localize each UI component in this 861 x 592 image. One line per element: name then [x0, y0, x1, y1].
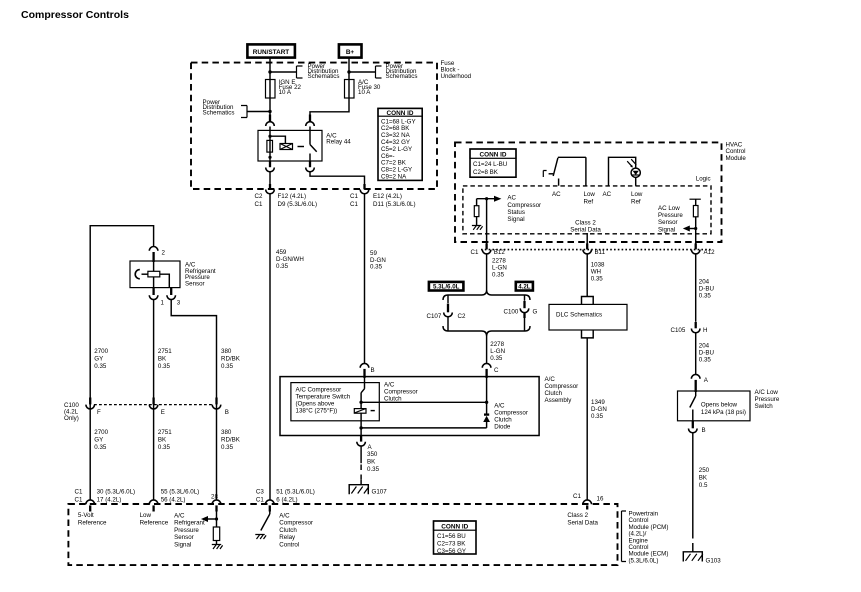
connector pin 2 sensor	[149, 247, 165, 263]
wire 1049 to PCM	[586, 338, 588, 500]
node B+	[339, 44, 362, 57]
svg-text:Low: Low	[631, 191, 643, 198]
svg-text:Schematics: Schematics	[203, 109, 235, 116]
label A/C Compressor Clutch Assembly	[545, 376, 579, 404]
svg-text:2751: 2751	[158, 348, 172, 355]
svg-text:Opens below: Opens below	[701, 401, 738, 408]
svg-text:F: F	[97, 409, 101, 416]
wire 204 from A12	[695, 254, 697, 322]
svg-text:C105: C105	[671, 327, 686, 334]
svg-text:Sensor: Sensor	[174, 534, 194, 541]
svg-text:Low: Low	[140, 512, 152, 519]
connector pin relay top left	[266, 115, 275, 131]
svg-text:Diode: Diode	[494, 424, 511, 431]
label 2700 GY 0.35 lower	[94, 429, 108, 451]
connector C105 cavity H	[671, 322, 708, 374]
label Opens below 124 kPa	[701, 401, 746, 416]
svg-text:3: 3	[177, 300, 181, 307]
connector C107	[427, 304, 466, 332]
svg-text:DLC Schematics: DLC Schematics	[556, 312, 602, 319]
wire branch to power distribution ref right	[349, 71, 376, 73]
label Power Distribution Schematics (mid)	[308, 63, 340, 80]
connector pin 1 sensor	[149, 288, 164, 307]
fuse block underhood box	[191, 63, 437, 189]
A/C compressor clutch assembly box	[280, 377, 539, 436]
connector PCM pin 16	[573, 493, 604, 510]
bracket power distribution (right)	[376, 66, 382, 78]
resistor low pressure pull-up	[690, 199, 701, 244]
label 2278 L-GN 0.35 lower	[490, 341, 505, 362]
svg-text:C2: C2	[458, 313, 466, 320]
title Compressor Controls	[21, 9, 129, 21]
svg-text:B+: B+	[346, 49, 355, 56]
svg-text:Signal: Signal	[507, 216, 524, 223]
fuse F30 A/C	[310, 80, 354, 122]
svg-text:Only): Only)	[64, 415, 79, 422]
svg-text:C1: C1	[75, 489, 83, 496]
svg-text:RD/BK: RD/BK	[221, 437, 241, 444]
svg-text:C3=56 GY: C3=56 GY	[437, 548, 466, 555]
label AC (switch)	[552, 191, 561, 198]
label A/C Compressor Clutch	[384, 382, 418, 403]
ground pcm sensor	[212, 545, 223, 550]
svg-text:(5.3L/6.0L): (5.3L/6.0L)	[629, 557, 659, 564]
connector line HVAC C1	[481, 249, 711, 251]
svg-text:204: 204	[699, 343, 710, 350]
wire 2751 BK (pin1 down)	[153, 300, 155, 500]
wire 350 BK to ground	[360, 446, 362, 485]
low pressure switch contact	[690, 392, 696, 421]
svg-text:Clutch: Clutch	[494, 417, 512, 424]
connector B low pressure switch	[689, 421, 706, 434]
svg-text:380: 380	[221, 348, 232, 355]
svg-text:0.35: 0.35	[699, 293, 712, 300]
connector pin relay bottom right	[306, 161, 365, 185]
label 59 D-GN 0.35	[370, 250, 386, 271]
svg-text:Serial Data: Serial Data	[570, 226, 601, 233]
svg-text:H: H	[703, 327, 707, 334]
conn id table fuse block	[378, 108, 422, 180]
svg-text:B: B	[702, 427, 706, 434]
svg-text:Reference: Reference	[140, 519, 169, 526]
ground pcm driver	[255, 535, 266, 540]
svg-text:Compressor: Compressor	[545, 383, 579, 390]
connector B clutch	[360, 363, 374, 378]
svg-text:Underhood: Underhood	[441, 73, 472, 80]
sensor symbol	[135, 262, 169, 288]
svg-text:2278: 2278	[492, 258, 506, 265]
svg-text:C2=8 BK: C2=8 BK	[473, 169, 499, 176]
label AC Low Pressure Sensor Signal	[658, 205, 683, 234]
svg-text:B: B	[225, 409, 229, 416]
svg-text:0.35: 0.35	[94, 363, 107, 370]
label 2278 L-GN 0.35 upper	[492, 258, 507, 279]
svg-text:4.2L: 4.2L	[518, 284, 531, 291]
svg-text:Refrigerant: Refrigerant	[174, 520, 205, 527]
connector A12	[691, 243, 715, 256]
svg-text:Low: Low	[584, 191, 596, 198]
svg-text:2751: 2751	[158, 429, 172, 436]
svg-text:0.35: 0.35	[591, 276, 604, 283]
node junction	[268, 70, 271, 73]
svg-text:Reference: Reference	[78, 519, 107, 526]
svg-text:138°C (275°F)): 138°C (275°F))	[296, 408, 338, 415]
relay K44 box	[258, 130, 322, 161]
wire branch 4.2L	[524, 295, 526, 301]
bus join brace lower	[443, 326, 530, 336]
label A/C Relay 44	[326, 133, 351, 146]
wire status signal arrow	[477, 196, 502, 202]
connector PCM low ref	[149, 489, 199, 512]
ground logic left	[472, 226, 483, 230]
svg-text:Clutch: Clutch	[384, 396, 402, 403]
svg-text:D-GN: D-GN	[591, 406, 607, 413]
svg-text:250: 250	[699, 467, 710, 474]
svg-text:A/C Compressor: A/C Compressor	[296, 387, 342, 394]
svg-text:204: 204	[699, 279, 710, 286]
svg-text:0.35: 0.35	[158, 444, 171, 451]
wire B11 inside logic	[586, 233, 588, 244]
logic box	[463, 186, 711, 234]
svg-text:Ref: Ref	[584, 199, 594, 206]
wire B+ to fuse	[348, 58, 350, 80]
svg-text:380: 380	[221, 429, 232, 436]
svg-text:C9=2 NA: C9=2 NA	[381, 174, 407, 181]
node junction	[347, 70, 350, 73]
label Powertrain Control Module	[622, 511, 669, 565]
ground G103	[683, 552, 721, 565]
label 5-Volt Reference	[78, 512, 107, 526]
svg-text:59: 59	[370, 250, 377, 257]
connector PCM 5-volt ref	[75, 489, 136, 512]
svg-text:1349: 1349	[591, 399, 605, 406]
connector line C100	[94, 404, 213, 406]
svg-text:Pressure: Pressure	[755, 396, 780, 403]
svg-text:Compressor: Compressor	[279, 520, 313, 527]
svg-text:C1=56 BU: C1=56 BU	[437, 533, 466, 540]
svg-text:Relay: Relay	[279, 534, 296, 541]
svg-text:D-BU: D-BU	[699, 286, 714, 293]
bracket power distribution (mid)	[297, 66, 303, 78]
label Class 2 Serial Data (HVAC)	[570, 219, 601, 233]
svg-text:C1: C1	[573, 493, 581, 500]
wire 2278 to clutch	[486, 336, 488, 363]
wire branch 5.3L	[447, 295, 449, 303]
svg-text:A/C: A/C	[279, 513, 290, 520]
off-page tab lower DLC	[582, 330, 594, 338]
label A/C Refrigerant Pressure Sensor	[185, 262, 216, 288]
relay switch	[310, 130, 317, 161]
label 250 BK 0.5	[699, 467, 710, 489]
svg-text:0.35: 0.35	[94, 444, 107, 451]
svg-text:WH: WH	[591, 269, 601, 276]
svg-text:BK: BK	[699, 475, 708, 482]
svg-text:Signal: Signal	[658, 226, 675, 233]
svg-text:AC: AC	[507, 195, 516, 202]
wire sensor supply loop	[90, 226, 153, 500]
svg-text:350: 350	[367, 451, 378, 458]
svg-text:Sensor: Sensor	[185, 280, 205, 287]
label 2751 BK 0.35 upper	[158, 348, 172, 370]
svg-text:0.35: 0.35	[221, 444, 234, 451]
svg-text:124 kPa (18 psi): 124 kPa (18 psi)	[701, 409, 746, 416]
svg-text:Schematics: Schematics	[386, 73, 418, 80]
svg-text:AC Low: AC Low	[658, 205, 680, 212]
wire low pressure sensor signal arrow	[683, 226, 698, 232]
wire B12 inside logic	[486, 199, 488, 244]
connector C100 cavity B	[212, 398, 229, 416]
label 350 BK 0.35	[367, 451, 380, 473]
svg-text:L-GN: L-GN	[492, 265, 507, 272]
bus split brace upper	[443, 290, 530, 300]
svg-text:C1: C1	[256, 497, 264, 504]
svg-text:A/C: A/C	[494, 403, 505, 410]
svg-text:28: 28	[211, 494, 218, 501]
label AC Compressor Status Signal	[507, 195, 541, 223]
label 1049 D-GN 0.35	[591, 399, 607, 420]
wire 250 BK to ground	[692, 433, 694, 552]
svg-text:CONN ID: CONN ID	[480, 152, 507, 159]
label C100 (4.2L Only)	[64, 402, 79, 422]
resistor status pull-up	[474, 199, 479, 226]
label A/C Compressor Clutch Relay Control	[279, 513, 313, 549]
svg-text:A/C: A/C	[174, 513, 185, 520]
svg-text:Clutch: Clutch	[279, 527, 297, 534]
driver switch pcm	[261, 512, 270, 531]
label 459 D-GN/WH 0.35	[276, 249, 304, 270]
svg-text:2700: 2700	[94, 348, 108, 355]
svg-text:Control: Control	[279, 541, 299, 548]
label Fuse Block - Underhood	[441, 60, 472, 80]
svg-text:BK: BK	[158, 356, 167, 363]
svg-text:Compressor Controls: Compressor Controls	[21, 9, 129, 21]
label 380 RD/BK 0.35 upper	[221, 348, 241, 370]
svg-text:B12: B12	[494, 249, 506, 256]
connector A low pressure switch	[691, 374, 708, 392]
svg-text:Switch: Switch	[755, 403, 774, 410]
svg-text:C3: C3	[256, 489, 264, 496]
svg-text:10 A: 10 A	[358, 89, 371, 96]
label E12 D11	[373, 193, 416, 208]
label Class 2 Serial Data (PCM)	[567, 512, 598, 526]
label AC (lamp)	[603, 191, 612, 198]
label A/C Fuse 30 10 A	[358, 79, 381, 96]
connector C2 fuse block exit	[266, 184, 275, 194]
svg-text:CONN ID: CONN ID	[387, 110, 414, 117]
label A/C Compressor Temperature Switch	[296, 387, 351, 415]
svg-text:0.35: 0.35	[158, 363, 171, 370]
connector C100 cavity G	[504, 301, 538, 331]
label Logic	[696, 176, 711, 183]
wire clutch feed	[359, 378, 488, 404]
svg-text:GY: GY	[94, 356, 103, 363]
A/C low pressure switch box	[678, 391, 751, 421]
svg-text:Schematics: Schematics	[308, 73, 340, 80]
label 4.2L boxed	[516, 282, 533, 291]
clutch coil	[354, 402, 375, 427]
svg-text:G103: G103	[706, 558, 722, 565]
svg-text:C100: C100	[504, 309, 519, 316]
connector PCM pin 28	[211, 494, 221, 512]
svg-text:10 A: 10 A	[279, 89, 292, 96]
svg-text:Compressor: Compressor	[494, 410, 528, 417]
svg-text:(Opens above: (Opens above	[296, 401, 335, 408]
svg-text:G: G	[533, 309, 538, 316]
svg-text:56 (4.2L): 56 (4.2L)	[161, 497, 186, 504]
label HVAC Control Module	[726, 142, 747, 162]
svg-text:16: 16	[597, 496, 604, 503]
label 5.3L/6.0L boxed	[429, 282, 464, 291]
label 204 D-BU 0.35 upper	[699, 279, 714, 300]
svg-text:Temperature Switch: Temperature Switch	[296, 394, 351, 401]
svg-text:0.35: 0.35	[367, 466, 380, 473]
wire 459 D-GN/WH (C2 to PCM)	[269, 194, 271, 500]
svg-text:E12 (4.2L): E12 (4.2L)	[373, 193, 402, 200]
connector B12	[471, 243, 506, 256]
label Low Ref (switch)	[584, 191, 596, 206]
svg-text:G107: G107	[372, 489, 388, 496]
svg-text:B: B	[371, 367, 375, 374]
connector C100 cavity F	[86, 398, 101, 416]
svg-text:459: 459	[276, 249, 287, 256]
node RUN/START	[247, 44, 295, 57]
temperature switch contact	[361, 378, 364, 402]
svg-text:2: 2	[162, 250, 166, 257]
connector pin relay top right	[306, 115, 315, 131]
svg-text:A12: A12	[704, 249, 716, 256]
svg-text:GY: GY	[94, 437, 103, 444]
A/C refrigerant pressure sensor box	[130, 261, 180, 288]
svg-text:17 (4.2L): 17 (4.2L)	[97, 497, 122, 504]
relay linkage wire	[270, 136, 285, 143]
svg-text:0.35: 0.35	[699, 357, 712, 364]
label A/C Refrigerant Pressure Sensor Signal	[174, 513, 205, 549]
label C2 C1	[255, 193, 263, 208]
relay actuator symbol	[280, 144, 304, 150]
svg-text:Status: Status	[507, 209, 525, 216]
svg-text:2278: 2278	[490, 341, 504, 348]
label F12 D9	[278, 193, 318, 208]
svg-text:RD/BK: RD/BK	[221, 356, 241, 363]
svg-text:C2: C2	[255, 193, 263, 200]
label Low Ref (lamp)	[631, 191, 643, 206]
pressure signal arrow and pull-up	[201, 512, 220, 545]
svg-text:Clutch: Clutch	[545, 390, 563, 397]
svg-text:D-GN/WH: D-GN/WH	[276, 256, 304, 263]
label 2700 GY 0.35 upper	[94, 348, 108, 370]
svg-text:5.3L/6.0L: 5.3L/6.0L	[433, 284, 460, 291]
svg-text:Logic: Logic	[696, 176, 711, 183]
svg-text:Ref: Ref	[631, 199, 641, 206]
wire clutch return	[359, 426, 486, 435]
wire branch to power distribution ref	[270, 71, 297, 73]
svg-text:C1: C1	[75, 497, 83, 504]
conn id table PCM	[434, 521, 477, 555]
svg-text:A/C Low: A/C Low	[755, 389, 779, 396]
svg-text:0.35: 0.35	[591, 413, 604, 420]
svg-text:0.35: 0.35	[490, 355, 503, 362]
svg-text:30 (5.3L/6.0L): 30 (5.3L/6.0L)	[97, 489, 136, 496]
svg-text:5-Volt: 5-Volt	[78, 512, 94, 519]
connector B11	[583, 243, 606, 256]
svg-text:Assembly: Assembly	[545, 397, 573, 404]
label A/C Low Pressure Switch	[755, 389, 780, 410]
label 380 RD/BK 0.35 lower	[221, 429, 241, 451]
svg-text:C: C	[494, 367, 499, 374]
svg-text:2700: 2700	[94, 429, 108, 436]
svg-text:B11: B11	[595, 249, 606, 256]
label IGN E Fuse 22 10 A	[279, 79, 302, 96]
wire 1038 from B11	[586, 254, 588, 297]
connector pin 3 sensor	[167, 288, 181, 307]
svg-text:C1: C1	[350, 201, 358, 208]
svg-text:Serial Data: Serial Data	[567, 519, 598, 526]
A/C compressor temperature switch box	[291, 383, 379, 421]
svg-text:A/C: A/C	[545, 376, 556, 383]
connector pin relay bottom left	[266, 161, 275, 185]
svg-text:6 (4.2L): 6 (4.2L)	[276, 497, 297, 504]
svg-text:L-GN: L-GN	[490, 348, 505, 355]
label Power Distribution Schematics (left)	[203, 99, 235, 116]
svg-text:D11 (5.3L/6.0L): D11 (5.3L/6.0L)	[373, 201, 416, 208]
connector PCM clutch relay control	[256, 489, 315, 512]
svg-text:C2=73 BK: C2=73 BK	[437, 540, 466, 547]
svg-text:BK: BK	[367, 459, 376, 466]
svg-text:1: 1	[161, 300, 165, 307]
label 204 D-BU 0.35 lower	[699, 343, 714, 364]
svg-text:C107: C107	[427, 313, 442, 320]
svg-text:Relay 44: Relay 44	[326, 139, 351, 146]
svg-text:D-BU: D-BU	[699, 350, 714, 357]
svg-text:CONN ID: CONN ID	[441, 524, 468, 531]
DLC schematics box	[549, 304, 627, 330]
A/C request switch	[543, 157, 586, 185]
label 2751 BK 0.35 lower	[158, 429, 172, 451]
wire RUN/START to fuse	[269, 58, 271, 80]
HVAC control module box	[455, 142, 722, 242]
svg-text:0.5: 0.5	[699, 482, 708, 489]
label Power Distribution Schematics (right)	[386, 63, 418, 80]
svg-text:Module: Module	[726, 155, 747, 162]
svg-text:C1: C1	[350, 193, 358, 200]
svg-text:0.35: 0.35	[276, 263, 289, 270]
relay coil	[267, 130, 273, 161]
svg-text:C1: C1	[255, 201, 263, 208]
label Low Reference	[140, 512, 169, 526]
svg-text:1038: 1038	[591, 262, 605, 269]
fuse F22 IGN E	[266, 80, 276, 122]
connector C clutch	[482, 363, 499, 378]
PCM box	[68, 504, 617, 565]
svg-text:F12 (4.2L): F12 (4.2L)	[278, 193, 307, 200]
label 1038 WH 0.35	[591, 262, 605, 283]
label A/C Compressor Clutch Diode	[494, 403, 528, 431]
svg-text:55 (5.3L/6.0L): 55 (5.3L/6.0L)	[161, 489, 200, 496]
svg-text:51 (5.3L/6.0L): 51 (5.3L/6.0L)	[276, 489, 315, 496]
connector C1 fuse block exit	[360, 184, 369, 194]
svg-text:E: E	[161, 409, 165, 416]
bracket power distribution (left)	[241, 106, 247, 118]
svg-text:A/C: A/C	[384, 382, 395, 389]
svg-text:Class 2: Class 2	[567, 512, 588, 519]
svg-text:AC: AC	[603, 191, 612, 198]
svg-text:0.35: 0.35	[221, 363, 234, 370]
svg-text:C1=24 L-BU: C1=24 L-BU	[473, 161, 507, 168]
ground G107	[349, 485, 387, 496]
A/C indicator lamp	[609, 157, 641, 185]
svg-text:Sensor: Sensor	[658, 219, 678, 226]
svg-text:D9 (5.3L/6.0L): D9 (5.3L/6.0L)	[278, 201, 318, 208]
